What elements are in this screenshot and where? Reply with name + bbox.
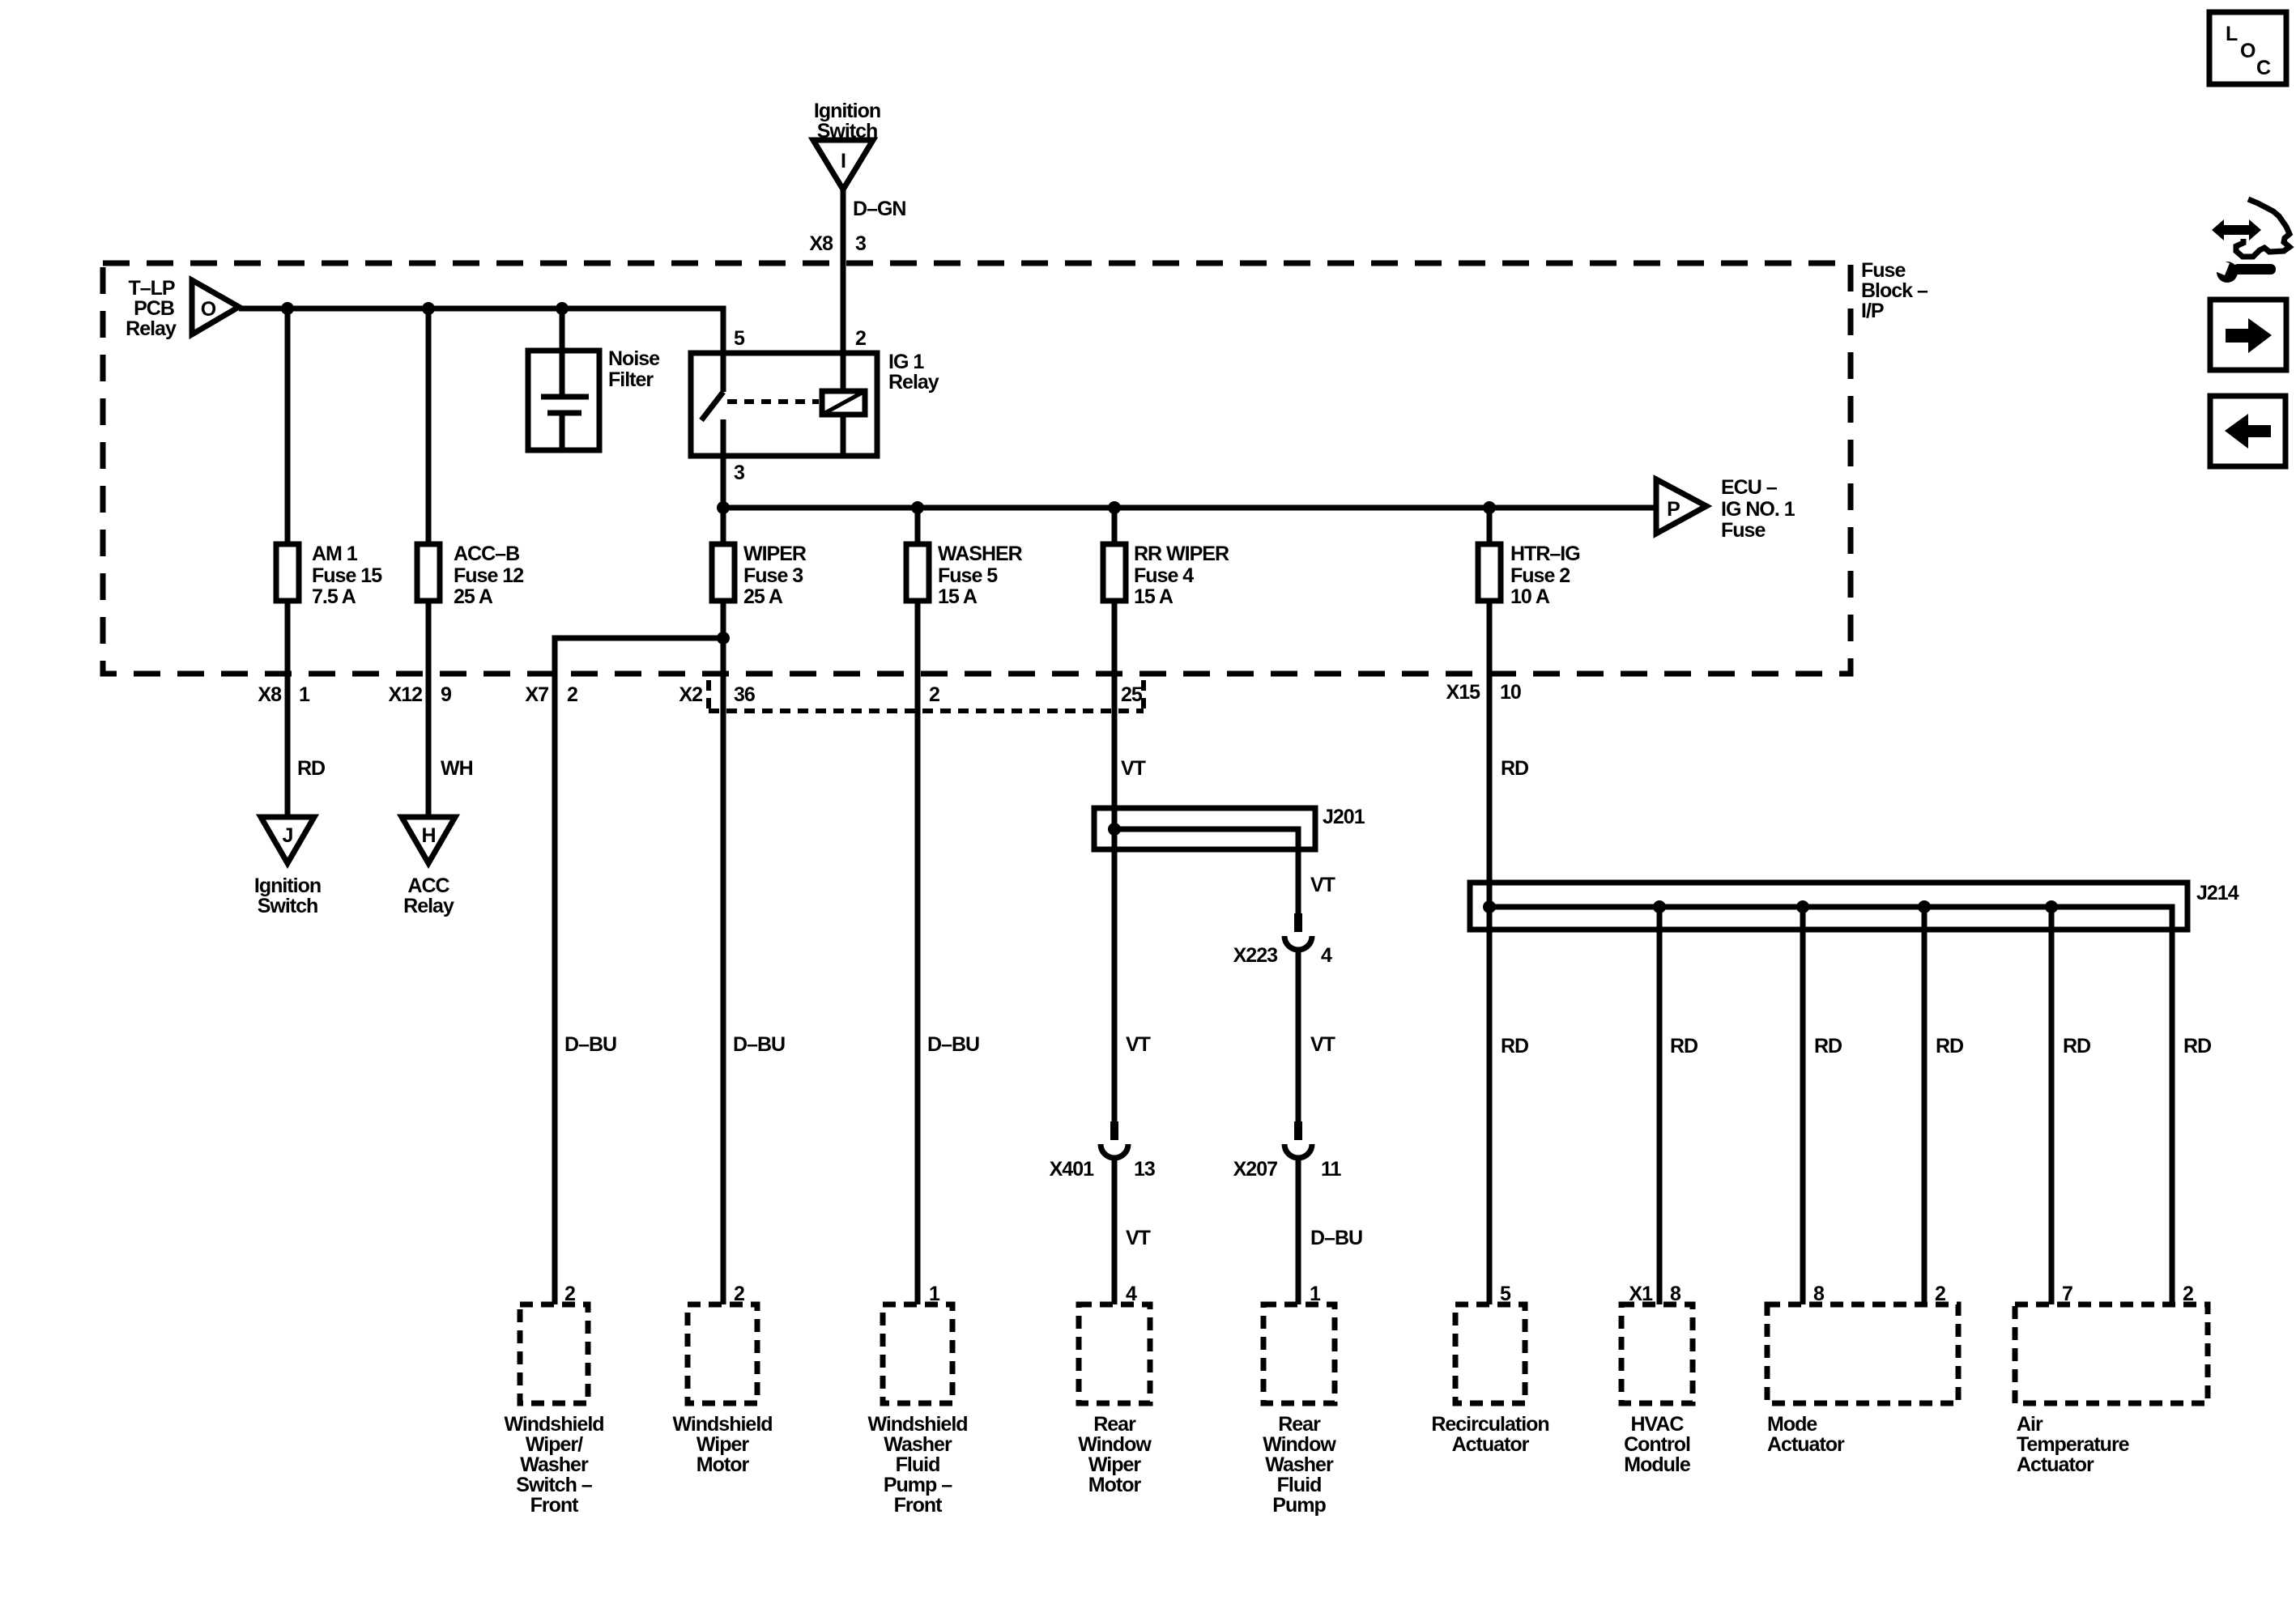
svg-text:D–BU: D–BU: [564, 1033, 616, 1056]
wire: AM 1 fuse output to ignition switch: [285, 601, 291, 817]
relay actuation dashed link: [727, 399, 819, 404]
inline connector X401 pin 13: [1050, 1121, 1155, 1181]
svg-text:RD: RD: [1501, 1035, 1528, 1057]
icon: back arrow button: [2210, 396, 2285, 466]
svg-text:Fluid: Fluid: [1277, 1474, 1322, 1496]
icon: vehicle outline with double arrow and wrench: [2211, 199, 2290, 283]
wire: WIPER fuse output down to wiper motor: [721, 601, 726, 1304]
svg-text:Actuator: Actuator: [1767, 1433, 1845, 1456]
svg-text:D–BU: D–BU: [927, 1033, 979, 1056]
svg-text:O: O: [2240, 40, 2256, 62]
splice J214: [1470, 882, 2239, 930]
svg-text:X7: X7: [525, 683, 548, 706]
svg-text:D–BU: D–BU: [1310, 1227, 1362, 1249]
svg-text:Relay: Relay: [888, 371, 939, 394]
junction node bus / HTR-IG fuse: [1483, 501, 1496, 514]
off-page connector H: to ACC Relay: [402, 817, 455, 917]
svg-text:Switch: Switch: [258, 895, 318, 917]
svg-text:RD: RD: [1501, 757, 1528, 780]
svg-text:D–GN: D–GN: [853, 198, 905, 220]
location code box LOC: [2209, 12, 2286, 84]
svg-text:X223: X223: [1233, 944, 1277, 967]
svg-text:RR WIPER: RR WIPER: [1134, 543, 1229, 565]
junction node at noise filter tap: [556, 302, 569, 315]
wire: ignition switch to IG 1 relay pin 2, D-GN: [841, 189, 846, 353]
wire: bus to WASHER fuse: [915, 508, 921, 544]
wire: feed to ACC-B fuse: [426, 309, 432, 544]
wire: J214 to mode actuator pin 2: [1922, 907, 1928, 1304]
svg-text:5: 5: [734, 327, 745, 350]
svg-text:Ignition: Ignition: [254, 874, 321, 897]
svg-text:Fuse 5: Fuse 5: [938, 564, 998, 587]
svg-text:VT: VT: [1126, 1033, 1151, 1056]
svg-text:Fuse 2: Fuse 2: [1510, 564, 1570, 587]
wire: J214 to HVAC control module: [1657, 907, 1663, 1304]
svg-text:RD: RD: [297, 757, 325, 780]
svg-text:Washer: Washer: [884, 1433, 952, 1456]
component: Rear Window Wiper Motor: [1078, 1304, 1152, 1496]
svg-text:RD: RD: [2183, 1035, 2211, 1057]
junction node bus / WIPER fuse: [717, 501, 730, 514]
svg-text:AM 1: AM 1: [312, 543, 358, 565]
icon: forward arrow button: [2210, 300, 2286, 370]
fuse RR WIPER / Fuse 4 / 15 A: [1103, 543, 1229, 608]
junction node J214 / mode actuator pin 2 wire: [1918, 900, 1931, 913]
svg-text:ACC: ACC: [407, 874, 449, 897]
svg-text:11: 11: [1321, 1158, 1342, 1181]
wire: X401 to rear window wiper motor: [1112, 1158, 1118, 1304]
fuse HTR-IG / Fuse 2 / 10 A: [1478, 543, 1580, 608]
junction node J201 / RR wiper wire: [1108, 823, 1121, 836]
wire: T-LP PCB relay output feed to IG 1 relay pin 5: [239, 309, 723, 353]
svg-text:Rear: Rear: [1278, 1413, 1321, 1436]
svg-text:2: 2: [929, 683, 939, 706]
svg-text:J201: J201: [1323, 806, 1365, 828]
svg-text:3: 3: [734, 462, 744, 484]
wire: feed to noise filter: [560, 309, 565, 353]
junction node at AM 1 fuse tap: [281, 302, 294, 315]
svg-text:Actuator: Actuator: [2017, 1453, 2094, 1476]
svg-text:2: 2: [567, 683, 577, 706]
svg-text:Fuse 12: Fuse 12: [454, 564, 523, 587]
svg-text:Front: Front: [530, 1494, 580, 1517]
svg-text:Pump: Pump: [1272, 1494, 1326, 1517]
svg-text:Noise: Noise: [608, 347, 660, 370]
svg-text:Fuse 15: Fuse 15: [312, 564, 382, 587]
wire: J201 output to X223: [1296, 849, 1301, 913]
relay IG 1: [691, 327, 939, 456]
svg-text:Fuse: Fuse: [1721, 519, 1766, 542]
svg-text:Fluid: Fluid: [896, 1453, 940, 1476]
inline connector X223 pin 4: [1233, 913, 1332, 967]
junction node at ACC-B fuse tap: [422, 302, 435, 315]
svg-text:Washer: Washer: [520, 1453, 589, 1476]
wire: switched ignition bus: [723, 505, 1656, 511]
svg-text:X15: X15: [1446, 681, 1481, 704]
svg-text:15 A: 15 A: [1134, 585, 1174, 608]
wire: X207 to rear window washer pump: [1296, 1158, 1301, 1304]
svg-text:X8: X8: [258, 683, 282, 706]
svg-text:T–LP: T–LP: [128, 277, 174, 300]
svg-text:WIPER: WIPER: [743, 543, 807, 565]
component: Rear Window Washer Fluid Pump: [1263, 1304, 1336, 1517]
svg-text:RD: RD: [1814, 1035, 1842, 1057]
svg-text:P: P: [1667, 498, 1680, 521]
svg-text:VT: VT: [1310, 874, 1335, 896]
svg-text:Fuse: Fuse: [1861, 259, 1906, 282]
fuse ACC-B / Fuse 12 / 25 A: [417, 543, 523, 608]
svg-text:ACC–B: ACC–B: [454, 543, 519, 565]
svg-text:Block –: Block –: [1861, 279, 1928, 302]
component: HVAC Control Module: [1621, 1304, 1693, 1476]
off-page connector P: to ECU-IG NO. 1 Fuse: [1656, 476, 1795, 542]
svg-text:H: H: [421, 824, 435, 847]
wire: WASHER fuse output to washer pump: [915, 601, 921, 1304]
svg-text:25 A: 25 A: [454, 585, 493, 608]
svg-text:Filter: Filter: [608, 368, 654, 391]
svg-text:WH: WH: [441, 757, 473, 780]
Fuse Block - I/P boundary: [103, 259, 1928, 674]
wire: J214 to air temperature actuator pin 7: [2049, 907, 2055, 1304]
component: Air Temperature Actuator: [2015, 1304, 2208, 1476]
component: Windshield Washer Fluid Pump - Front: [867, 1304, 967, 1517]
splice J201: [1094, 806, 1365, 849]
svg-text:3: 3: [855, 232, 866, 255]
svg-text:C: C: [2256, 57, 2271, 79]
svg-text:10 A: 10 A: [1510, 585, 1550, 608]
fuse WASHER / Fuse 5 / 15 A: [906, 543, 1023, 608]
relay switch arm: [701, 392, 723, 420]
off-page connector I: Ignition Switch feed: [813, 100, 880, 189]
component: Recirculation Actuator: [1431, 1304, 1548, 1456]
inline connector X207 pin 11: [1233, 1121, 1342, 1181]
svg-text:IG NO. 1: IG NO. 1: [1721, 498, 1795, 521]
svg-text:Windshield: Windshield: [672, 1413, 772, 1436]
svg-text:I/P: I/P: [1861, 300, 1884, 322]
junction node bus / WASHER fuse: [911, 501, 924, 514]
svg-text:VT: VT: [1121, 757, 1146, 780]
svg-text:RD: RD: [1936, 1035, 1963, 1057]
svg-text:4: 4: [1321, 944, 1332, 967]
wire: ACC-B fuse output to ACC relay: [426, 601, 432, 817]
fuse WIPER / Fuse 3 / 25 A: [712, 543, 807, 608]
svg-text:Window: Window: [1263, 1433, 1336, 1456]
wire: relay pin 3 to fuse bus: [721, 456, 726, 508]
svg-text:Motor: Motor: [1088, 1474, 1142, 1496]
svg-text:Wiper/: Wiper/: [526, 1433, 583, 1456]
svg-text:HTR–IG: HTR–IG: [1510, 543, 1580, 565]
junction node J214 / air temperature actuator pin 7 wire: [2045, 900, 2058, 913]
relay coil: [822, 391, 865, 415]
svg-text:10: 10: [1500, 681, 1521, 704]
svg-text:Motor: Motor: [696, 1453, 750, 1476]
component: Mode Actuator: [1767, 1304, 1958, 1456]
svg-text:X2: X2: [679, 683, 702, 706]
noise filter (capacitor): [528, 347, 660, 450]
svg-text:X12: X12: [389, 683, 423, 706]
svg-text:VT: VT: [1310, 1033, 1335, 1056]
svg-text:Temperature: Temperature: [2017, 1433, 2130, 1456]
wire: J214 to mode actuator pin 8: [1800, 907, 1806, 1304]
wire: X223 to X207: [1296, 950, 1301, 1121]
svg-text:VT: VT: [1126, 1227, 1151, 1249]
svg-text:Control: Control: [1624, 1433, 1690, 1456]
svg-text:RD: RD: [1670, 1035, 1698, 1057]
off-page connector O: T-LP PCB Relay: [126, 277, 239, 340]
svg-text:WASHER: WASHER: [938, 543, 1023, 565]
svg-text:36: 36: [734, 683, 755, 706]
wire: feed to AM 1 fuse: [285, 309, 291, 544]
svg-text:Wiper: Wiper: [1088, 1453, 1141, 1476]
svg-text:HVAC: HVAC: [1631, 1413, 1685, 1436]
svg-text:Air: Air: [2017, 1413, 2043, 1436]
wire: jog to X7 branch (wiper/washer switch): [555, 638, 723, 1304]
svg-text:ECU –: ECU –: [1721, 476, 1778, 499]
junction node J214 / HVAC control module wire: [1653, 900, 1666, 913]
wire: RR WIPER fuse output to X401: [1112, 601, 1118, 1121]
junction node J214 / recirculation actuator wire: [1483, 900, 1496, 913]
svg-text:X207: X207: [1233, 1158, 1277, 1181]
svg-text:15 A: 15 A: [938, 585, 978, 608]
junction node wiper fuse output tee: [717, 632, 730, 645]
component: Windshield Wiper Motor: [672, 1304, 772, 1476]
wire: bus to WIPER fuse: [721, 508, 726, 544]
svg-text:Washer: Washer: [1265, 1453, 1334, 1476]
svg-text:2: 2: [855, 327, 866, 350]
svg-text:IG 1: IG 1: [888, 351, 924, 373]
svg-text:7.5 A: 7.5 A: [312, 585, 356, 608]
svg-text:Wiper: Wiper: [696, 1433, 749, 1456]
svg-text:I: I: [841, 150, 846, 172]
svg-text:O: O: [201, 298, 216, 321]
wire: J214 to air temperature actuator pin 2: [2170, 930, 2175, 1304]
svg-text:Windshield: Windshield: [504, 1413, 603, 1436]
connector X2 dotted outline: [709, 680, 1144, 711]
svg-text:1: 1: [299, 683, 310, 706]
svg-text:25 A: 25 A: [743, 585, 783, 608]
svg-text:Recirculation: Recirculation: [1431, 1413, 1548, 1436]
svg-text:Ignition: Ignition: [814, 100, 880, 122]
junction node bus / RR WIPER fuse: [1108, 501, 1121, 514]
svg-text:Module: Module: [1624, 1453, 1691, 1476]
svg-text:J214: J214: [2196, 882, 2239, 904]
svg-text:Fuse 3: Fuse 3: [743, 564, 803, 587]
svg-text:Relay: Relay: [126, 317, 177, 340]
component: Windshield Wiper/Washer Switch - Front: [504, 1304, 603, 1517]
wire: bus to HTR-IG fuse: [1487, 508, 1493, 544]
svg-text:Relay: Relay: [403, 895, 454, 917]
svg-text:Fuse 4: Fuse 4: [1134, 564, 1194, 587]
wire: HTR-IG fuse output through J214 to recirculation actuator: [1487, 601, 1493, 1304]
wire: bus to RR WIPER fuse: [1112, 508, 1118, 544]
svg-text:PCB: PCB: [134, 297, 174, 320]
svg-text:Mode: Mode: [1767, 1413, 1817, 1436]
svg-text:Front: Front: [894, 1494, 944, 1517]
svg-text:Pump –: Pump –: [884, 1474, 952, 1496]
svg-text:J: J: [283, 824, 293, 847]
svg-text:D–BU: D–BU: [733, 1033, 785, 1056]
svg-text:Switch –: Switch –: [516, 1474, 593, 1496]
svg-text:9: 9: [441, 683, 451, 706]
off-page connector J: to Ignition Switch: [254, 817, 321, 917]
junction node J214 / mode actuator pin 8 wire: [1796, 900, 1809, 913]
svg-text:L: L: [2226, 23, 2238, 45]
svg-text:X8: X8: [809, 232, 833, 255]
svg-text:X401: X401: [1050, 1158, 1094, 1181]
svg-text:25: 25: [1121, 683, 1143, 706]
fuse AM 1 / Fuse 15 / 7.5 A: [276, 543, 382, 608]
svg-text:Windshield: Windshield: [867, 1413, 967, 1436]
svg-text:Window: Window: [1078, 1433, 1152, 1456]
svg-text:RD: RD: [2063, 1035, 2090, 1057]
svg-text:Actuator: Actuator: [1452, 1433, 1530, 1456]
svg-text:13: 13: [1134, 1158, 1155, 1181]
svg-text:Rear: Rear: [1093, 1413, 1136, 1436]
